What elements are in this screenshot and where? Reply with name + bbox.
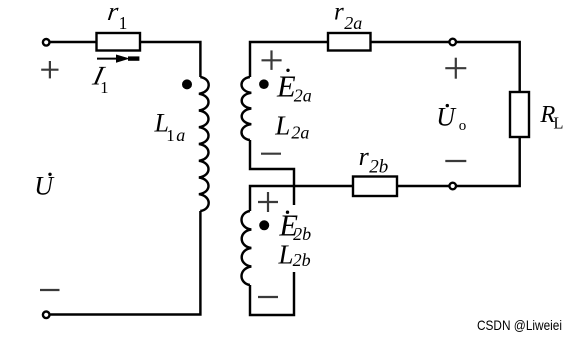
svg-text:2b: 2b xyxy=(369,156,388,177)
svg-text:1: 1 xyxy=(100,78,108,97)
svg-text:o: o xyxy=(459,118,467,134)
svg-text:1: 1 xyxy=(119,13,128,33)
svg-text:CSDN @Liweiei: CSDN @Liweiei xyxy=(477,317,562,333)
svg-text:L: L xyxy=(274,111,290,141)
svg-text:r: r xyxy=(359,142,370,171)
svg-text:L: L xyxy=(553,113,563,132)
svg-text:2a: 2a xyxy=(291,122,309,142)
svg-text:U: U xyxy=(34,171,55,200)
svg-text:a: a xyxy=(176,125,185,145)
svg-text:2b: 2b xyxy=(293,250,311,270)
svg-text:L: L xyxy=(278,240,294,270)
svg-text:r: r xyxy=(334,0,344,25)
svg-text:2a: 2a xyxy=(344,13,362,33)
svg-text:2a: 2a xyxy=(294,86,312,106)
svg-text:1: 1 xyxy=(166,126,175,145)
svg-text:2b: 2b xyxy=(293,224,311,244)
